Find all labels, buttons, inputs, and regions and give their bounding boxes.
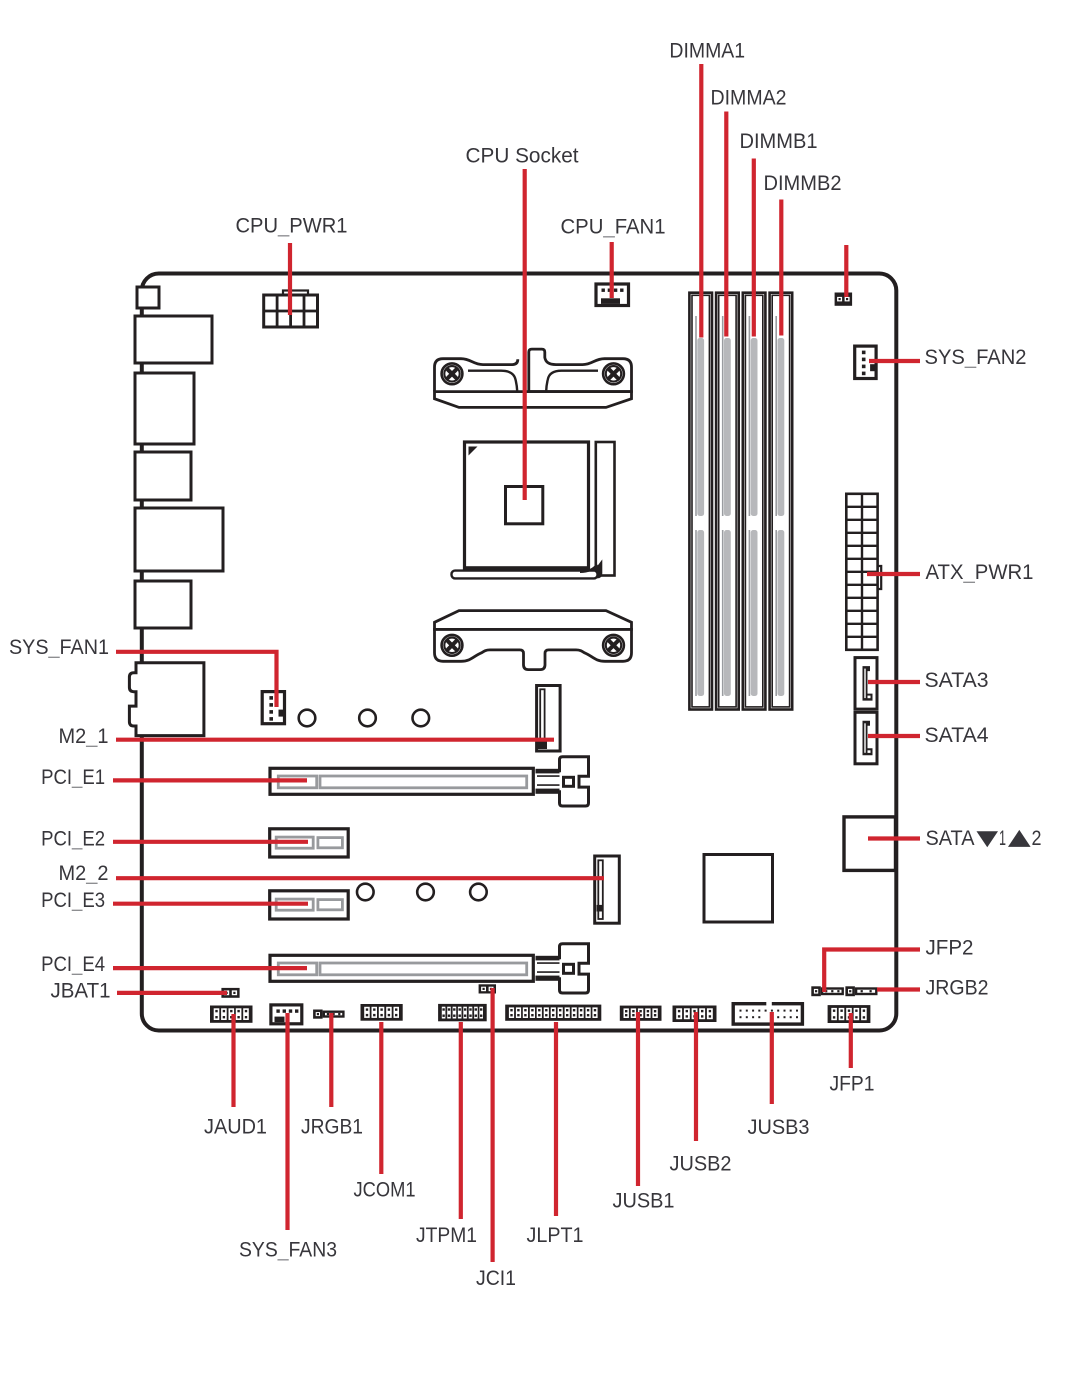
svg-text:SYS_FAN3: SYS_FAN3 [239,1239,337,1262]
leader line SATA4 [868,734,920,738]
leader line JRGB1 [329,1013,333,1107]
svg-text:M2_2: M2_2 [59,862,109,885]
DIMM slot DIMMB1 [743,293,766,710]
fan header SYS_FAN2 [855,346,876,378]
connector SATA4 [855,712,877,764]
svg-text:JTPM1: JTPM1 [416,1224,477,1247]
svg-text:JCOM1: JCOM1 [354,1179,416,1202]
header JFP2 [811,986,844,996]
svg-text:JAUD1: JAUD1 [204,1116,267,1139]
leader line SATA 1 2 [868,836,920,840]
CPU socket lever [452,442,615,578]
leader line SYS_FAN3 [285,1013,289,1230]
leader line JRGB2 [877,987,920,991]
io block 4 [135,452,191,500]
header JAUD1 [210,1006,253,1023]
svg-text:DIMMA1: DIMMA1 [669,39,745,62]
svg-text:PCI_E1: PCI_E1 [41,766,105,789]
header JLPT1 [505,1005,601,1021]
header JFP1 [828,1005,871,1023]
CPU socket [465,442,589,569]
leader line JLPT1 [554,1022,558,1216]
slot PCI_E3 [270,891,349,919]
header JRGB2 [845,986,877,996]
connector M2_1 [537,686,561,752]
connector SATA 1 2 box [844,817,896,871]
svg-text:JUSB1: JUSB1 [613,1190,675,1213]
svg-text:PCI_E3: PCI_E3 [41,889,105,912]
svg-text:JUSB3: JUSB3 [748,1116,810,1139]
jumper top-right 2-pin [835,293,853,306]
io block 5 [135,508,223,571]
standoff hole m2_1 1 [299,710,316,727]
leader line JUSB2 [694,1012,698,1141]
leader line M2_2 [116,876,604,880]
leader line PCI_E1 [113,778,307,782]
leader line JBAT1 [117,991,227,995]
connector JUSB3 [733,1002,802,1025]
leader line JCI1 [491,988,495,1262]
leader line DIMMB2 [779,200,783,336]
leader line CPU_FAN1 [610,242,614,298]
standoff hole m2_1 2 [359,710,376,727]
svg-text:PCI_E2: PCI_E2 [41,828,105,851]
connector CPU_PWR1 8-pin [264,291,318,328]
DIMM slot DIMMA2 [716,293,739,710]
CPU retention bracket top [435,349,632,407]
connector SATA3 [855,658,877,710]
svg-text:JCI1: JCI1 [476,1267,516,1290]
leader line M2_1 [116,738,554,742]
slot PCI_E4 [270,955,533,981]
leader line JTPM1 [459,1022,463,1219]
leader line PCI_E4 [113,966,307,970]
leader line SATA3 [868,680,920,684]
leader line JUSB1 [636,1012,640,1186]
svg-text:SYS_FAN2: SYS_FAN2 [925,346,1027,369]
leader line CPU_PWR1 [288,243,292,315]
header JUSB2 [673,1006,717,1023]
motherboard outline [142,274,897,1031]
chipset square [704,855,773,923]
standoff hole m2_2 3 [470,884,487,901]
svg-text:DIMMA2: DIMMA2 [711,87,787,110]
svg-text:JFP1: JFP1 [830,1073,875,1096]
leader line SYS_FAN2 [869,359,920,363]
svg-text:JLPT1: JLPT1 [527,1224,584,1247]
io block 1 [137,287,159,308]
latch PCI_E1 latch [536,757,589,806]
header JUSB1 [620,1006,662,1021]
latch PCI_E4 latch [536,944,589,993]
connector ATX_PWR1 24-pin [846,494,881,650]
svg-text:JFP2: JFP2 [926,937,974,960]
fan header SYS_FAN1 [262,692,284,724]
connector M2_2 [595,856,620,923]
svg-text:ATX_PWR1: ATX_PWR1 [926,561,1034,584]
leader line ATX_PWR1 [867,572,920,576]
svg-text:DIMMB1: DIMMB1 [740,130,818,153]
jumper JCI1 [479,984,496,993]
svg-text:CPU_PWR1: CPU_PWR1 [236,215,348,238]
fan header SYS_FAN3 [271,1005,302,1024]
leader line SYS_FAN1 [116,652,277,707]
svg-text:PCI_E4: PCI_E4 [41,953,105,976]
leader line DIMMA2 [724,112,728,337]
leader line CPU Socket [523,169,527,500]
svg-text:SATA4: SATA4 [925,724,989,747]
svg-text:JRGB2: JRGB2 [926,977,989,1000]
svg-text:1: 1 [999,827,1006,850]
svg-text:2: 2 [1032,827,1042,850]
svg-text:CPU_FAN1: CPU_FAN1 [561,216,666,239]
header JRGB1 [313,1010,345,1019]
leader line PCI_E2 [113,840,308,844]
header JCOM1 [361,1004,403,1021]
leader line PCI_E3 [113,902,308,906]
leader line JFP2 [824,950,920,993]
fan header CPU_FAN1 [596,284,629,306]
standoff hole m2_2 2 [417,884,434,901]
io audio block [129,663,204,736]
standoff hole m2_2 1 [357,884,374,901]
svg-text:JRGB1: JRGB1 [301,1116,363,1139]
svg-text:JUSB2: JUSB2 [670,1153,732,1176]
svg-text:SATA3: SATA3 [925,669,989,692]
header JTPM1 [438,1004,487,1021]
standoff hole m2_1 3 [413,710,430,727]
svg-text:SATA: SATA [926,827,975,850]
leader line DIMMB1 [752,159,756,337]
svg-text:M2_1: M2_1 [59,725,109,748]
jumper JBAT1 [221,988,239,998]
leader line DIMMA1 [699,64,703,338]
slot PCI_E2 [270,829,349,857]
svg-text:JBAT1: JBAT1 [51,980,111,1003]
label SATA 1 2 [926,827,1042,850]
svg-text:DIMMB2: DIMMB2 [764,172,842,195]
svg-text:SYS_FAN1: SYS_FAN1 [9,636,109,659]
io block 2 [135,316,212,363]
DIMM slot DIMMA1 [689,293,712,710]
io block 3 [135,373,194,444]
svg-text:CPU Socket: CPU Socket [466,145,579,168]
io block 6 [135,581,191,628]
DIMM slot DIMMB2 [770,293,793,710]
leader line JAUD1 [231,1014,235,1107]
slot PCI_E1 [270,768,533,794]
leader line top-right jumper [844,245,848,297]
CPU retention bracket bottom [435,611,632,670]
leader line JFP1 [849,1013,853,1068]
leader line JCOM1 [379,1022,383,1174]
leader line JUSB3 [770,1012,774,1104]
